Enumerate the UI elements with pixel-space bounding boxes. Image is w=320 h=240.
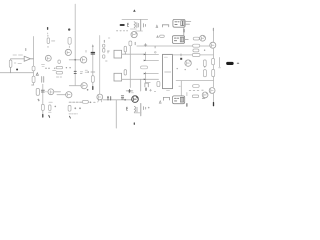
resistor R1 (9, 60, 12, 67)
dash above R7 (49, 101, 52, 103)
op-amp U2 triangle (11, 56, 34, 72)
transistor Q9 (200, 35, 206, 41)
label dashes right of Q3 (80, 72, 82, 74)
capacitor dark on x92.8 (91, 52, 95, 54)
IC internal dashes (165, 71, 171, 73)
resistor R7 x49.8 (49, 105, 51, 111)
resistor on y46 rail (193, 44, 200, 47)
dashed line bottom (69, 113, 77, 115)
transistor Q7 (97, 94, 103, 100)
resistor on x92.8 (91, 76, 94, 83)
tiny text under cluster (136, 30, 143, 32)
wire dashed y102.2 (69, 101, 90, 103)
mark below top label box (183, 29, 185, 32)
ground stub x219.6 (219, 58, 221, 68)
tick x38 y99 (37, 99, 40, 101)
transistor Q4 (81, 83, 87, 89)
text marks right of bracket (150, 89, 156, 91)
resistor x204.9 vertical 2 (203, 70, 206, 77)
component column x103.8 (103, 44, 105, 47)
node dot bottom cluster (148, 107, 150, 109)
resistor mid capsule (141, 66, 148, 69)
long rail y46 (137, 45, 210, 47)
bracket mid x145-148 (145, 83, 148, 87)
resistors pair x56-63 (56, 66, 62, 68)
capacitor C1 U-shape (36, 88, 39, 95)
dot right of black box (237, 62, 238, 64)
cross tick x92.8 (91, 71, 95, 73)
node dots y108 (74, 107, 76, 109)
wire vertical x42.8 bottom (42, 84, 44, 116)
resistor R8 on y102.2 (82, 100, 88, 103)
vertical bus x130.3 (129, 46, 131, 88)
node dot y102.2 (90, 102, 92, 104)
resistor on x130.3 (129, 41, 132, 46)
net triangle x157.5 (157, 36, 159, 38)
transistor Q14 dark (132, 96, 139, 103)
net stub marks left of Q14 (121, 96, 123, 99)
ticks near R4 (47, 35, 49, 47)
capacitor above box A wire (124, 46, 126, 52)
vertical bus x99.7 (99, 36, 101, 95)
resistor below rail (193, 85, 200, 88)
mark x135 y43 (134, 42, 136, 44)
resistor on y54.9 (192, 53, 200, 56)
transistor Q10 (210, 42, 216, 48)
net arrow top x134.4 (133, 9, 136, 11)
resistor on bus 2 (212, 69, 215, 76)
crystal box A (114, 50, 122, 58)
net dot above R5 (68, 28, 70, 30)
transistor Q8 (131, 31, 137, 37)
bracket left of label box (163, 97, 169, 100)
wire base Q4 (69, 85, 81, 87)
capacitor blob on x75.2 (74, 71, 76, 73)
transistor Q3 (80, 57, 86, 63)
wire vertical bus x116.3 (115, 100, 117, 128)
label B (127, 23, 128, 26)
wire Q5-Q6 (54, 92, 66, 95)
label B bottom cluster (126, 107, 127, 110)
tick above Q3 (85, 50, 87, 52)
wires out of top label box (185, 21, 191, 24)
marks right of stub (144, 24, 146, 27)
bus continue 2 (213, 77, 215, 87)
IC U1 (163, 54, 173, 88)
wire vertical bus x75.2 (74, 4, 76, 85)
net marks above R4 (47, 28, 49, 30)
top cluster: hline y19.6 (122, 19, 148, 21)
small cap x58-60 (58, 60, 61, 63)
small circle mark (155, 52, 157, 54)
ground mark x48.8 (48, 115, 51, 117)
resistor below IC-left (157, 81, 160, 86)
transistor Q13 on bus (209, 88, 215, 94)
tick left of box A (106, 60, 108, 62)
vertical stub x140.7 (140, 20, 142, 31)
net label box Fe (172, 36, 184, 44)
capacitor C2 (42, 77, 44, 83)
dots under (177, 68, 178, 69)
pin marks right of bottom cluster (144, 107, 146, 110)
text marks near C1 (32, 85, 40, 100)
right bus x213.5 top (212, 28, 214, 58)
label text VIN (13, 55, 23, 64)
label tick (25, 49, 27, 51)
mark below label box (186, 104, 188, 107)
dash right of dot (94, 101, 96, 103)
capacitor above box B wire (124, 70, 126, 75)
resistor above y54.9 (193, 49, 199, 52)
net label box top (173, 19, 185, 27)
resistor R6 on x42.8 (41, 104, 44, 110)
wire IC top-right rail y54.9 (173, 54, 214, 56)
transistor Q2 (65, 49, 71, 55)
net triangle marker x37 (36, 73, 38, 76)
capacitor dashes x85 (85, 70, 87, 72)
vertical bus x92.8 with arrow (92, 47, 94, 89)
tick left of stub (179, 85, 180, 87)
wire box A out (122, 53, 145, 55)
label above Q8 (130, 28, 136, 30)
resistor above rail (193, 37, 199, 40)
wire vertical bus x33.5 (33, 37, 35, 85)
dash left of bracket y90.3 (167, 89, 170, 91)
resistor R4 x47.5 (47, 38, 49, 44)
dark tick y123 (133, 123, 135, 124)
net tick bus top (212, 28, 214, 30)
bottom cluster curly transistor (134, 106, 135, 112)
junction cross on wire y90.9 (126, 90, 133, 92)
node dots row y68 (66, 67, 67, 68)
tiny text left dots (117, 30, 128, 32)
junction arrows (144, 54, 146, 81)
label text below Q1 (42, 65, 45, 67)
resistor on bus x213.5 (212, 58, 215, 64)
resistor capsule above rail (160, 35, 165, 37)
wire op-amp input net (11, 59, 25, 60)
wire emitter row y99.8 (103, 99, 132, 101)
text row y90.6 (189, 89, 203, 91)
transistor Q1 (45, 55, 51, 61)
dash below Q12 (202, 97, 205, 99)
resistor x204.8 vertical (204, 60, 207, 67)
wire stub down x181.3 (180, 81, 182, 96)
dark tick below bracket (145, 88, 147, 90)
cross mark x145.5 (144, 44, 155, 48)
dark dash (battery) (121, 24, 124, 26)
ground tip x42.8 (42, 115, 44, 117)
ground mark (69, 116, 72, 118)
bus continue (213, 65, 215, 69)
text marks above Q14 (129, 92, 134, 94)
R4 value label (52, 40, 55, 42)
wire box B out (122, 78, 159, 80)
resistor R5 above Q2 (68, 37, 71, 44)
net triangle (159, 101, 161, 103)
dash below R7 (49, 111, 52, 113)
rail y80.6 (176, 80, 213, 82)
dark component (black box) (226, 62, 233, 65)
transistor Q6 (66, 92, 72, 98)
tick below R5 (68, 46, 70, 48)
tiny text under bottom cluster (134, 112, 141, 114)
IC pin stubs left (145, 52, 158, 60)
dark node square (180, 58, 182, 60)
resistor R9 vertical x69 (68, 105, 71, 111)
tick on rail (180, 54, 182, 56)
capacitor C3 (blob) (41, 90, 44, 92)
resistor R2 (on x33.5 above rail) (32, 66, 35, 71)
wire base Q3 (69, 59, 80, 61)
dark segment on bus (213, 103, 215, 106)
net label box bottom (173, 96, 185, 104)
pin ticks with arrow x108 (108, 96, 111, 100)
crystal box B (114, 73, 122, 81)
transistor Q15 (curly) top cluster (134, 22, 135, 28)
wire Q5 base (44, 91, 48, 93)
vline bottom cluster (140, 103, 142, 115)
resistor R3 (on x33.5 below rail) (32, 76, 35, 82)
text dashes y77 (56, 76, 61, 78)
ground tip x92.8 (92, 87, 94, 90)
junction dot (74, 59, 76, 61)
transistor Q12 (202, 92, 208, 98)
vline x140.7 lower (140, 79, 142, 91)
node dot near R1 (16, 69, 18, 71)
transistor Q5 (48, 89, 54, 95)
wire bus bottom (213, 93, 215, 106)
resistor y95 (192, 95, 198, 98)
node dot x55 (55, 106, 57, 108)
transistor Q11 (185, 60, 191, 66)
wire horizontal rail left (0, 72, 34, 74)
